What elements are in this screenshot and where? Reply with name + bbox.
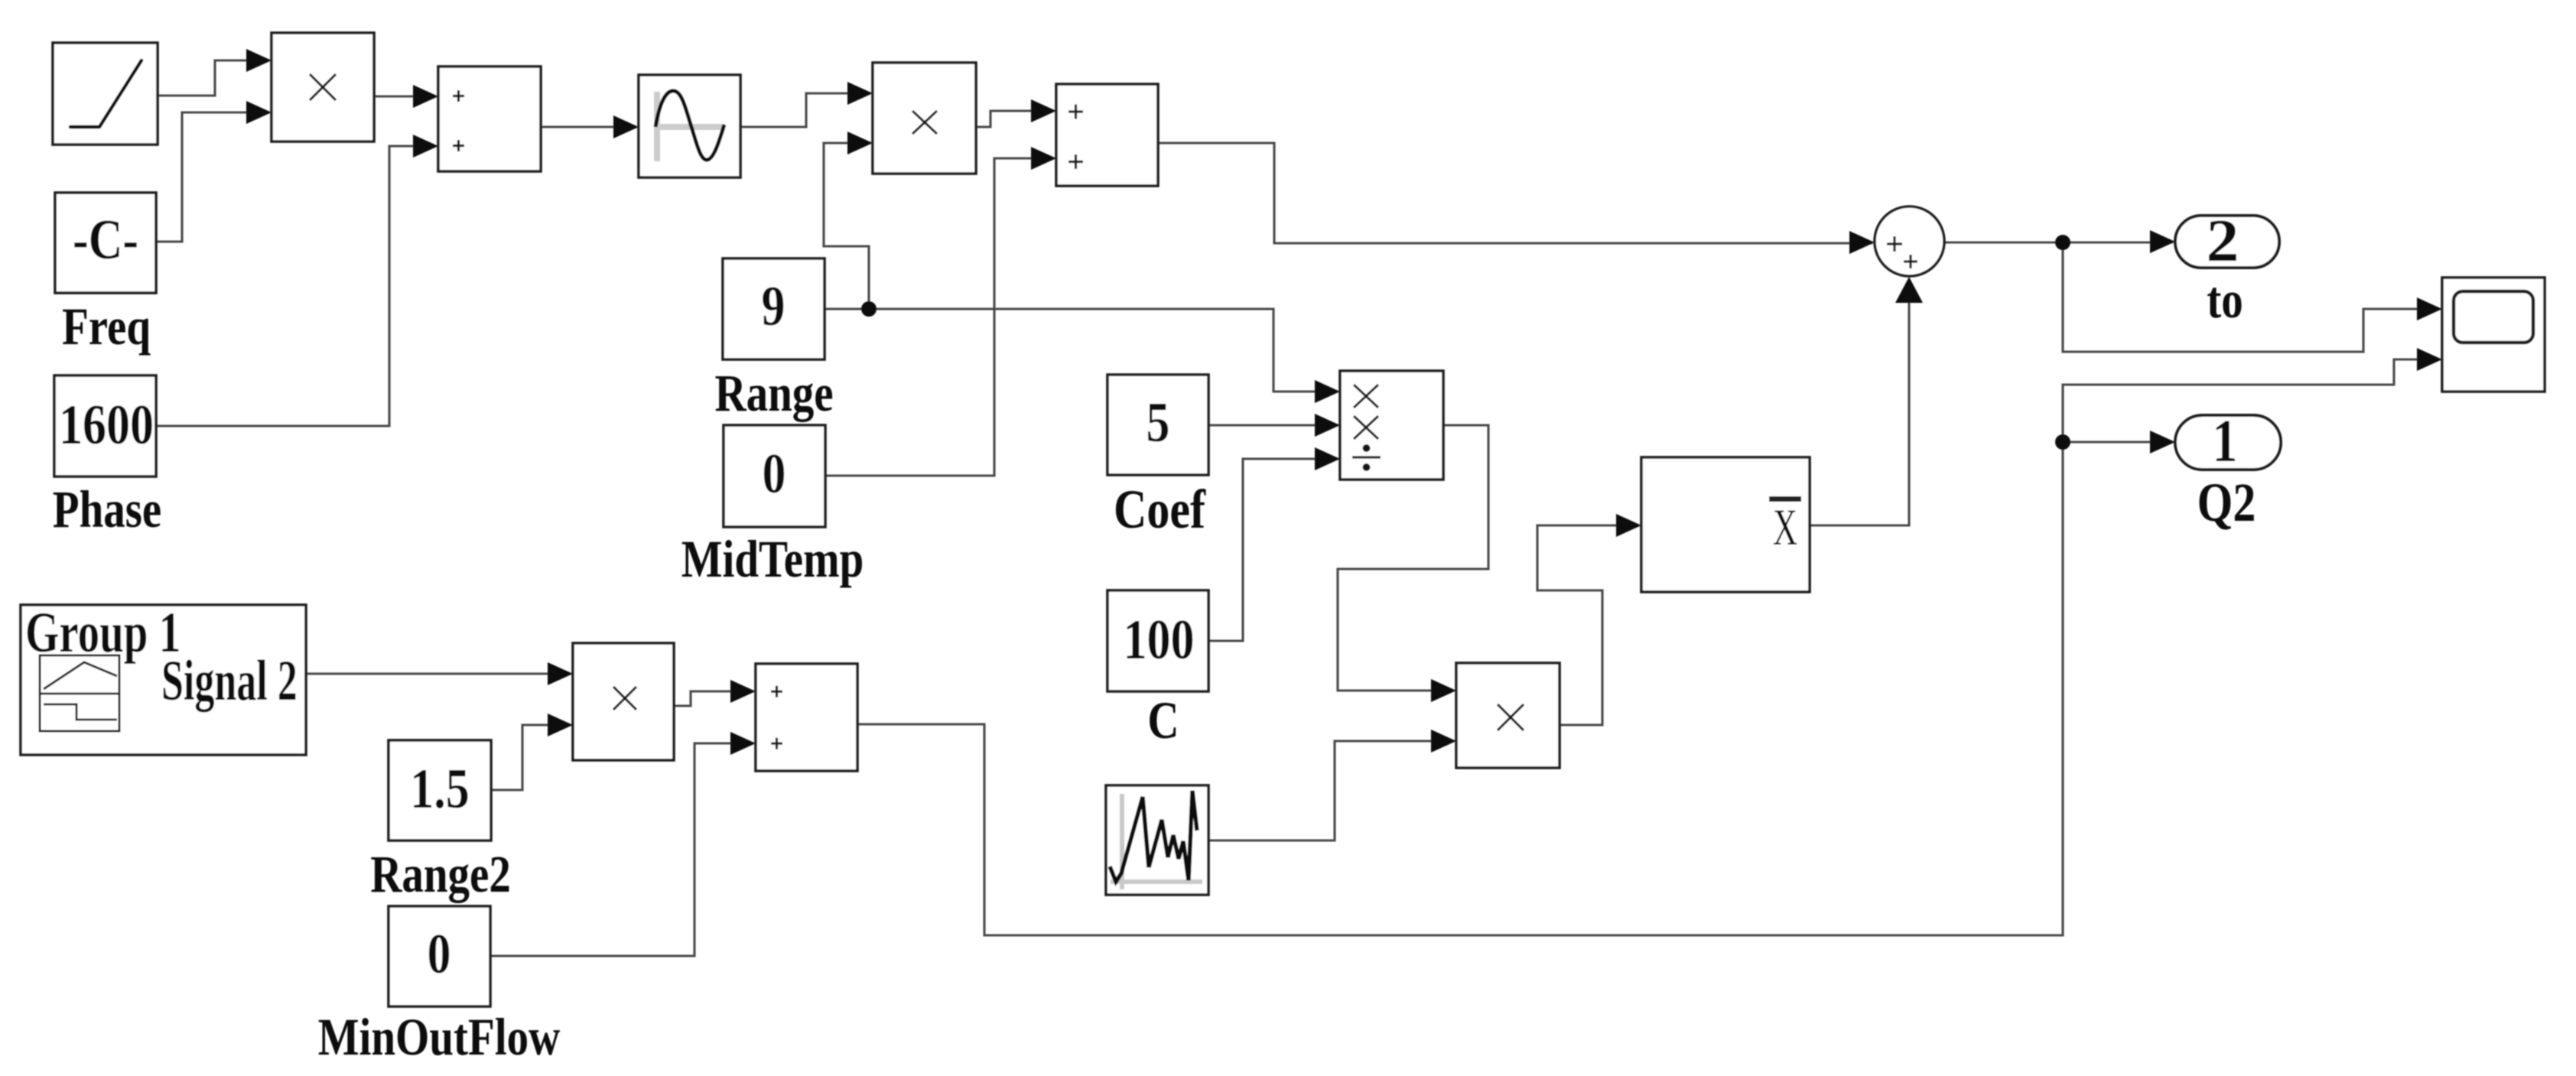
- arrowhead into port Q2: [2150, 431, 2175, 453]
- svg-text:X: X: [1773, 499, 1797, 557]
- symbol divide dots in Product2: [1363, 444, 1371, 471]
- wire Range to Product1: [824, 143, 870, 309]
- block Sum: [438, 67, 541, 171]
- wire Sum to SineFcn: [541, 125, 636, 128]
- arrowhead into Product2 input 2: [1315, 414, 1340, 437]
- icon Signal Builder plot box: [40, 655, 119, 731]
- wire Coef to Product2: [1208, 424, 1338, 426]
- port 1 oval: [2175, 415, 2281, 470]
- block Product3: [1456, 663, 1560, 768]
- block Mean: [1641, 457, 1810, 592]
- block MidTemp constant: [724, 425, 825, 527]
- symbol x in Product3: [1498, 704, 1524, 730]
- port 2 oval: [2175, 216, 2279, 268]
- svg-text:9: 9: [762, 275, 785, 338]
- arrowhead into Sum1 input 2: [1031, 147, 1056, 170]
- icon SineFcn curve: [655, 91, 724, 160]
- wire Product to Sum: [374, 95, 436, 97]
- icon Scope screen: [2454, 291, 2533, 343]
- symbol Xbar in Mean: [1769, 496, 1801, 556]
- block Phase constant: [54, 375, 156, 476]
- svg-text:Q2: Q2: [2197, 473, 2256, 533]
- icon SineFcn axes: [654, 92, 725, 161]
- icon Noise waveform: [1110, 791, 1197, 882]
- block Signal Builder Group 1: [21, 605, 306, 755]
- wire MidTemp to Sum1: [825, 158, 1054, 476]
- block Range2 constant: [389, 740, 491, 840]
- symbol plus Sum2 input1: [771, 686, 782, 697]
- block Product4: [573, 643, 674, 760]
- arrowhead into SineFcn: [613, 115, 639, 138]
- wire Range to Product2: [825, 309, 1338, 392]
- symbol plus Sum2 input2: [771, 738, 782, 749]
- arrowhead into Product1 input 1: [847, 82, 873, 105]
- arrowhead into SumCircle left: [1849, 231, 1875, 254]
- block SineFcn: [639, 75, 740, 177]
- svg-text:0: 0: [428, 922, 451, 986]
- wire Product3 to Mean: [1537, 525, 1639, 725]
- symbol divide in Product2 row3: [1352, 456, 1381, 458]
- svg-text:0: 0: [763, 442, 786, 505]
- svg-text:-C-: -C-: [73, 208, 138, 271]
- symbol x in Product2 row2: [1354, 416, 1378, 439]
- svg-text:Freq: Freq: [62, 297, 151, 356]
- wire Product2 to Product3: [1338, 425, 1488, 691]
- arrowhead into Sum input 1: [413, 85, 438, 108]
- arrowhead into Product3 input 2: [1431, 730, 1456, 753]
- block Sum1: [1056, 84, 1158, 186]
- svg-text:MinOutFlow: MinOutFlow: [318, 1008, 561, 1066]
- arrowhead into Scope input 1: [2417, 297, 2442, 320]
- symbol x in Product2 row1: [1354, 385, 1378, 408]
- arrowhead into Product4 input 1: [548, 662, 573, 685]
- wire Product4 to Sum2: [674, 691, 753, 706]
- block Product1: [873, 63, 976, 174]
- svg-text:MidTemp: MidTemp: [681, 530, 864, 588]
- svg-text:5: 5: [1147, 391, 1170, 454]
- arrowhead into Product2 input 3: [1315, 447, 1340, 470]
- wire Ramp to Product: [158, 60, 269, 96]
- block Noise: [1106, 785, 1208, 895]
- symbol x in Product: [310, 74, 336, 100]
- icon Signal Builder waveforms: [40, 662, 119, 720]
- arrowhead into Product input 1: [246, 49, 272, 72]
- block Freq constant: [55, 193, 156, 293]
- arrowhead into Mean: [1616, 514, 1641, 537]
- symbol x in Product4: [613, 687, 636, 710]
- wire Freq to Product: [156, 112, 269, 242]
- block Product: [272, 33, 374, 141]
- svg-text:100: 100: [1124, 608, 1195, 671]
- arrowhead into Sum input 2: [413, 135, 438, 158]
- wire branch Q2 to Scope input 2: [2063, 359, 2440, 442]
- icon Ramp line: [70, 60, 141, 127]
- symbol plus SumCircle 2: [1904, 255, 1917, 268]
- wire C to Product2: [1208, 459, 1338, 641]
- block Range constant: [723, 258, 825, 359]
- arrowhead into Product1 input 2: [847, 132, 873, 154]
- svg-text:1.5: 1.5: [410, 757, 469, 821]
- svg-text:Range: Range: [714, 364, 833, 422]
- junction dot at SumCircle output: [2055, 235, 2070, 250]
- arrowhead into Scope input 2: [2417, 348, 2442, 371]
- svg-text:1600: 1600: [59, 393, 154, 457]
- block Ramp: [53, 43, 158, 145]
- arrowhead into Product2 input 1: [1315, 380, 1340, 403]
- arrowhead into Product3 input 1: [1431, 679, 1456, 702]
- icon Noise axes: [1111, 794, 1202, 889]
- wire Mean to SumCircle: [1810, 301, 1909, 525]
- block Sum2: [756, 664, 857, 771]
- wire branch to Scope input 1: [2063, 242, 2440, 352]
- arrowhead into port to: [2150, 230, 2175, 253]
- wire Signal2 to Product4: [306, 672, 571, 675]
- junction dot at Q2 branch: [2055, 434, 2070, 450]
- svg-text:Range2: Range2: [370, 845, 511, 903]
- symbol plus Sum input1: [453, 90, 464, 102]
- svg-text:Group 1: Group 1: [25, 602, 181, 665]
- wire Noise to Product3: [1208, 741, 1454, 840]
- block Scope: [2442, 278, 2545, 392]
- wire SumCircle to port to: [1944, 241, 2173, 243]
- wire Sum1 to SumCircle: [1158, 143, 1872, 243]
- svg-text:Signal 2: Signal 2: [161, 649, 298, 714]
- svg-text:Phase: Phase: [53, 480, 161, 538]
- wire Phase to Sum: [156, 146, 436, 426]
- symbol plus SumCircle 1: [1887, 236, 1902, 252]
- svg-text:2: 2: [2207, 206, 2239, 274]
- arrowhead into Sum2 input 1: [730, 680, 756, 703]
- block SumCircle: [1875, 206, 1944, 276]
- wire Product1 to Sum1: [975, 111, 1054, 127]
- wire Sum2 to port Q2: [857, 442, 2173, 935]
- arrowhead into Sum2 input 2: [730, 732, 756, 755]
- arrowhead into Sum1 input 1: [1031, 99, 1056, 122]
- junction dot at Range output: [861, 301, 877, 317]
- wire SineFcn to Product1: [740, 93, 870, 127]
- block MinOutFlow constant: [389, 906, 490, 1006]
- symbol plus Sum input2: [453, 140, 464, 151]
- symbol plus Sum1 input2: [1068, 154, 1083, 169]
- block Product2 multiply divide: [1340, 371, 1443, 479]
- symbol x in Product1: [912, 111, 937, 134]
- block C constant: [1107, 590, 1208, 691]
- arrowhead into Product input 2: [246, 101, 272, 124]
- wire MinOutFlow to Sum2: [490, 743, 753, 956]
- arrowhead up into SumCircle: [1895, 277, 1923, 303]
- svg-text:Coef: Coef: [1114, 479, 1206, 540]
- symbol plus Sum1 input1: [1068, 105, 1083, 119]
- block Coef constant: [1107, 375, 1208, 475]
- wire Range2 to Product4: [491, 725, 571, 790]
- svg-text:to: to: [2207, 271, 2243, 329]
- arrowhead into Product4 input 2: [548, 714, 573, 736]
- svg-text:C: C: [1147, 691, 1179, 749]
- svg-text:1: 1: [2213, 407, 2238, 474]
